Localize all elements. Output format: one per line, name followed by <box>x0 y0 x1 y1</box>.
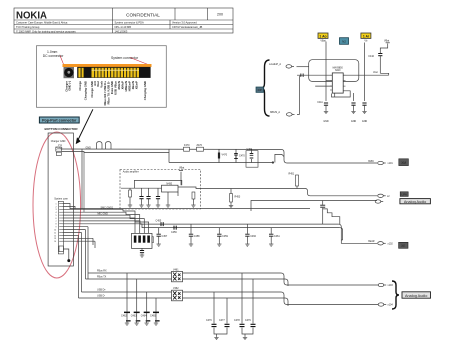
svg-text:C465: C465 <box>150 315 156 318</box>
svg-text:5: 5 <box>56 215 57 217</box>
svg-text:V461: V461 <box>173 268 179 271</box>
svg-text:Charging GND: Charging GND <box>143 81 147 100</box>
svg-text:GND: GND <box>86 146 92 149</box>
svg-text:Charge: Charge <box>78 81 82 91</box>
svg-text:14: 14 <box>54 241 56 243</box>
svg-text:14/11/2003: 14/11/2003 <box>115 30 128 34</box>
svg-text:Charging GND: Charging GND <box>84 81 88 100</box>
svg-text:Version 3.0 Approved: Version 3.0 Approved <box>172 21 197 25</box>
svg-text:13: 13 <box>54 238 56 240</box>
svg-text:C460: C460 <box>250 235 256 238</box>
svg-text:TCO Training Group: TCO Training Group <box>16 25 40 29</box>
svg-text:MBUS_A: MBUS_A <box>270 111 280 114</box>
svg-text:9: 9 <box>56 227 57 229</box>
svg-text:© 2003 NMP. Only for training: © 2003 NMP. Only for training and servic… <box>16 30 76 34</box>
svg-text:R453: R453 <box>235 196 241 199</box>
svg-text:7: 7 <box>56 221 57 223</box>
svg-text:C464: C464 <box>141 315 147 318</box>
svg-text:C462: C462 <box>121 315 127 318</box>
svg-text:N410: N410 <box>335 70 341 72</box>
svg-text:C459: C459 <box>222 235 228 238</box>
svg-text:C477: C477 <box>219 319 225 322</box>
svg-text:MIC GND: MIC GND <box>98 213 109 216</box>
svg-text:GND: GND <box>323 120 329 123</box>
svg-text:CP/O2 Venkataramani_JB: CP/O2 Venkataramani_JB <box>172 25 203 29</box>
svg-text:C476: C476 <box>206 319 212 322</box>
svg-text:C458: C458 <box>194 235 200 238</box>
svg-text:11: 11 <box>54 232 56 234</box>
svg-text:GND: GND <box>362 120 368 123</box>
svg-text:BOTTOM CONNECTOR: BOTTOM CONNECTOR <box>45 127 79 131</box>
svg-text:C463: C463 <box>131 315 137 318</box>
svg-text:1 Ao: 1 Ao <box>319 34 326 38</box>
svg-text:C455: C455 <box>156 220 162 223</box>
svg-text:VBat: VBat <box>384 40 390 43</box>
svg-text:12: 12 <box>54 235 56 237</box>
svg-text:C479: C479 <box>245 319 251 322</box>
svg-text:2: 2 <box>56 206 57 208</box>
svg-text:System connector & PDA: System connector & PDA <box>115 21 145 25</box>
svg-text:XEAR: XEAR <box>368 240 375 243</box>
svg-text:3: 3 <box>56 209 57 211</box>
svg-text:LAudioP_A: LAudioP_A <box>269 63 281 66</box>
svg-text:Vout: Vout <box>373 71 378 74</box>
svg-text:4: 4 <box>56 212 57 214</box>
svg-text:NOKIA: NOKIA <box>16 10 47 22</box>
svg-text:NPL-1/-10 MB: NPL-1/-10 MB <box>115 25 132 29</box>
svg-text:System conn: System conn <box>54 197 68 200</box>
svg-text:C410: C410 <box>368 55 374 58</box>
svg-text:V470: V470 <box>222 154 228 157</box>
svg-text:GND: GND <box>351 120 357 123</box>
svg-text:N450: N450 <box>166 183 172 186</box>
svg-text:FBus TX: FBus TX <box>97 276 107 279</box>
svg-text:R451: R451 <box>289 173 295 176</box>
svg-text:Analog Audio: Analog Audio <box>404 200 426 204</box>
svg-text:VBat: VBat <box>320 39 326 42</box>
svg-text:MAX9850: MAX9850 <box>333 66 344 69</box>
svg-text:DP: DP <box>258 88 262 92</box>
svg-text:1: 1 <box>56 203 57 205</box>
svg-text:USB D+: USB D+ <box>97 289 106 292</box>
svg-text:Z470: Z470 <box>197 144 203 147</box>
svg-text:XMIC: XMIC <box>368 160 374 163</box>
svg-text:C456: C456 <box>171 231 177 234</box>
svg-text:Analog Audio: Analog Audio <box>405 294 427 298</box>
svg-text:Customer Care Europe, Middle E: Customer Care Europe, Middle East & Afri… <box>16 21 68 25</box>
svg-text:Charger GND: Charger GND <box>51 140 66 143</box>
svg-text:V462: V462 <box>173 287 179 290</box>
svg-text:C461: C461 <box>274 235 280 238</box>
svg-text:Audio amplifier: Audio amplifier <box>123 171 139 174</box>
svg-text:Pop-Port connector: Pop-Port connector <box>42 119 77 123</box>
svg-text:USB D-: USB D- <box>97 295 105 298</box>
svg-text:x101: x101 <box>388 162 394 165</box>
svg-text:C478: C478 <box>234 319 240 322</box>
svg-text:200: 200 <box>217 13 223 17</box>
svg-text:XEarP: XEarP <box>135 81 139 89</box>
svg-text:C411: C411 <box>317 101 323 104</box>
svg-text:N2: N2 <box>342 40 346 44</box>
svg-text:XE: XE <box>401 244 405 248</box>
svg-text:LPA: LPA <box>401 192 406 196</box>
svg-text:C470: C470 <box>239 155 245 158</box>
svg-text:x102: x102 <box>388 242 394 245</box>
svg-text:10: 10 <box>54 230 56 232</box>
svg-text:x103: x103 <box>388 284 394 287</box>
svg-text:FBus RX: FBus RX <box>97 270 107 273</box>
svg-text:GND (-): GND (-) <box>68 81 72 91</box>
svg-text:C457: C457 <box>162 235 168 238</box>
svg-text:CONFIDENTIAL: CONFIDENTIAL <box>126 12 160 17</box>
svg-text:VBat: VBat <box>179 167 185 170</box>
svg-text:SMC GND1: SMC GND1 <box>101 206 114 209</box>
svg-text:XM: XM <box>401 161 406 165</box>
svg-text:6: 6 <box>56 218 57 220</box>
svg-text:1 Ai: 1 Ai <box>363 34 369 38</box>
svg-text:F470: F470 <box>184 144 190 147</box>
svg-text:x104: x104 <box>388 304 394 307</box>
svg-text:V450: V450 <box>247 148 253 151</box>
svg-text:8: 8 <box>56 224 57 226</box>
